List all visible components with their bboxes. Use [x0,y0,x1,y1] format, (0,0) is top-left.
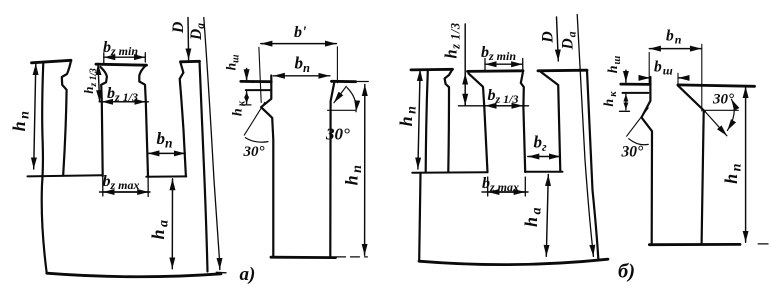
svg-text:hп: hп [721,161,745,184]
svg-text:bп: bп [666,28,682,47]
svg-text:hп: hп [342,163,366,186]
svg-text:D: D [170,21,187,34]
svg-text:bz max: bz max [482,175,519,194]
svg-text:30°: 30° [712,92,734,108]
svg-text:bz min: bz min [103,39,138,58]
svg-text:bп: bп [157,129,173,151]
svg-text:hк: hк [231,99,248,116]
svg-text:b': b' [294,24,307,41]
svg-text:30°: 30° [621,144,645,161]
svg-text:hz 1/3: hz 1/3 [442,22,463,58]
svg-text:hz 1/3: hz 1/3 [81,68,99,94]
svg-text:hк: hк [602,89,619,106]
svg-text:hш: hш [606,55,623,74]
svg-text:bz 1/3: bz 1/3 [488,87,519,106]
svg-text:bz max: bz max [103,173,140,192]
svg-text:ha: ha [521,205,545,227]
svg-text:30°: 30° [325,125,350,144]
svg-text:D: D [540,31,557,44]
svg-text:а): а) [240,264,256,285]
svg-text:bш: bш [654,59,674,78]
svg-text:hп: hп [396,104,420,127]
svg-text:hш: hш [224,55,242,71]
svg-text:bп: bп [295,54,311,76]
svg-text:Da: Da [188,23,207,41]
svg-text:б): б) [618,261,635,283]
svg-text:Da: Da [560,31,579,51]
svg-text:bг: bг [534,133,548,155]
svg-text:30°: 30° [243,144,265,160]
svg-text:hп: hп [9,109,33,132]
svg-text:ha: ha [148,217,172,239]
svg-text:bz 1/3: bz 1/3 [107,85,138,104]
svg-text:bz min: bz min [481,44,516,63]
